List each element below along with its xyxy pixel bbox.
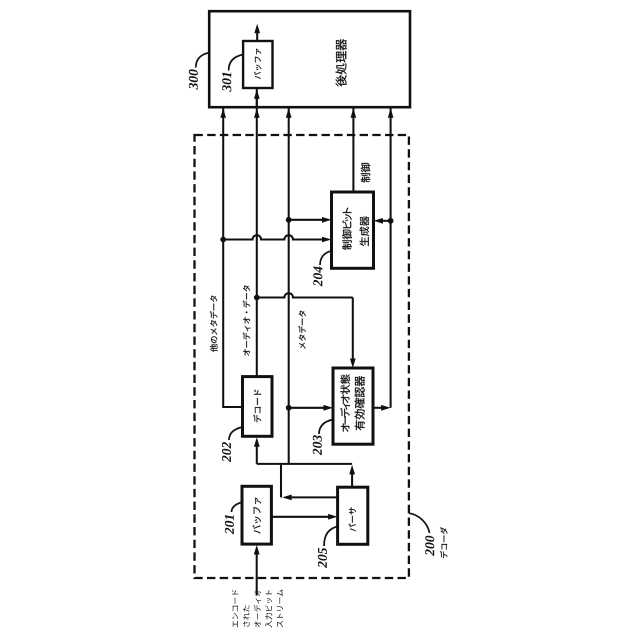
parser box 205	[338, 487, 368, 544]
wire L3 metadata (parser junction to 300)	[288, 108, 290, 464]
decode box 202	[243, 377, 273, 437]
arrowhead into 300 from wire L4	[351, 108, 357, 118]
label 200 with leader and デコーダ	[409, 513, 430, 533]
wire other-metadata branch into 204 with hops	[220, 237, 226, 243]
205 label パーサ	[349, 507, 356, 531]
201 label バッファ	[252, 498, 261, 534]
decoder dashed box 200	[195, 135, 409, 578]
wire L2 audio-data (202 top to buffer 301)	[256, 89, 258, 377]
input bitstream arrow into 201	[256, 552, 258, 596]
label 301 with leader	[222, 73, 231, 92]
wire into 202 bottom	[256, 445, 258, 464]
wire 201 to 205	[271, 516, 331, 518]
wire parser frame output to 202 feed	[289, 496, 338, 498]
arrowhead into 300 from wire L5	[388, 108, 394, 118]
label 300 with leader	[189, 69, 198, 89]
label オーディオ・データ on wire L2	[243, 285, 250, 355]
label 他のメタデータ on wire L1	[210, 296, 218, 352]
buffer label バッファ (301)	[254, 49, 261, 79]
audio-state-validator box 203	[333, 368, 373, 444]
wire audio-data branch to 203 top with hop	[254, 295, 260, 301]
label 204 with leader	[313, 267, 322, 287]
post-processor label 後処理器	[336, 39, 347, 86]
label 205 with leader	[318, 548, 327, 568]
203 label col オーディオ状態	[340, 374, 350, 431]
input label column 入力ビット	[265, 590, 272, 628]
wire validity branch into 204	[388, 218, 394, 224]
wire parser metadata output up	[351, 472, 353, 487]
input label column エンコード	[232, 590, 238, 627]
label 202 with leader	[222, 442, 231, 462]
204 label col 制御ビット	[342, 208, 352, 250]
202 label デコード	[253, 390, 261, 423]
arrow out of buffer 301 (output)	[256, 32, 258, 42]
control-bit-generator box 204	[332, 192, 374, 268]
arrowhead into 300 from wire L2	[254, 108, 260, 118]
arrowhead into 300 from wire L1	[220, 108, 226, 118]
input buffer box 201	[242, 486, 271, 544]
wire metadata branch into 203 left	[286, 405, 292, 411]
post-processor box 300	[209, 11, 410, 107]
label メタデータ on wire L3	[299, 311, 306, 349]
wire metadata branch into 204	[286, 217, 292, 223]
wire L5 validity (203 output to 300)	[390, 108, 392, 408]
input label column された	[243, 605, 250, 627]
arrowhead into 300 from wire L3	[286, 108, 292, 118]
label 203 with leader	[313, 435, 322, 455]
204 label col 生成器	[360, 216, 370, 246]
buffer box 301	[243, 41, 272, 88]
203 label col 有効確認器	[355, 376, 365, 430]
input label column ストリーム	[277, 590, 283, 628]
input label column オーディオ	[254, 590, 261, 628]
arrow into buffer 301 from below	[256, 98, 258, 108]
label 201 with leader	[225, 515, 234, 534]
wire L4 control (204 top to 300)	[352, 108, 354, 193]
wire junction line y464	[257, 463, 352, 465]
wire L1 other-metadata (202 left to 300)	[223, 108, 242, 407]
wire 203 output to wire L5	[373, 407, 384, 409]
label 制御 on wire L4	[361, 163, 370, 182]
